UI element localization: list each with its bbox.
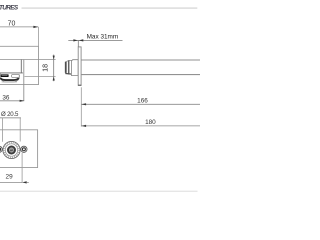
svg-text:TURES: TURES [0, 5, 19, 12]
svg-text:18: 18 [40, 64, 49, 72]
svg-text:29: 29 [6, 174, 14, 181]
svg-text:166: 166 [137, 98, 148, 105]
svg-text:Max 31mm: Max 31mm [87, 33, 119, 40]
svg-text:Ø 20.5: Ø 20.5 [1, 111, 19, 118]
svg-text:180: 180 [145, 119, 156, 126]
